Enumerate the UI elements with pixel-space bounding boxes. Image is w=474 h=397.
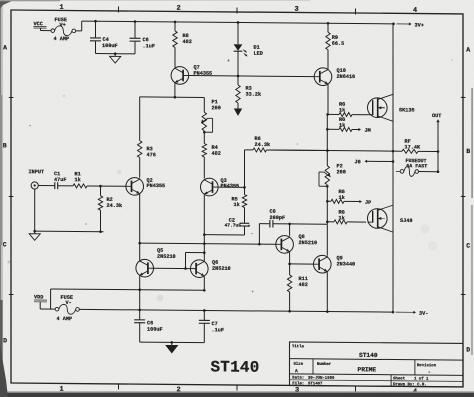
title block PRIME [358, 366, 377, 373]
title block Number [317, 362, 332, 367]
ground bottom filled [166, 342, 178, 353]
resistor R3 33.2k [236, 85, 261, 103]
potentiometer P1 200 [201, 97, 221, 133]
wire output node row [326, 149, 394, 152]
wire C1 to R1 [58, 185, 73, 187]
wire input shield down [34, 189, 36, 231]
node VDD [34, 294, 47, 302]
zone number 1 top [60, 4, 64, 12]
resistor R3 476 [138, 97, 156, 178]
zone letter B right [466, 148, 470, 155]
resistor R2 24.3k [98, 186, 122, 232]
node VCC [34, 21, 47, 28]
title block frame [290, 342, 464, 387]
wire top V+ rail [82, 21, 394, 24]
wire node row to R3 and P1 [140, 96, 205, 99]
resistor R5 1k [232, 187, 247, 208]
scan streak right edge [471, 88, 473, 355]
fuse F1 4 AMP V+ [51, 17, 76, 42]
wire VDD to fuse F2 [40, 302, 55, 309]
wire Q2 emitter down [138, 195, 141, 260]
zone letter D left [3, 337, 7, 344]
transistor Q2 PN4355 [126, 178, 165, 196]
title block File [292, 381, 323, 386]
wire rail to LED D1 [237, 22, 239, 44]
capacitor C6 100uF bottom [134, 310, 162, 342]
transistor Q3 PN4355 [201, 178, 240, 196]
wire bottom cap join [140, 341, 205, 344]
paper grain overlay [0, 0, 1, 1]
wire Q8 collector [289, 224, 291, 236]
resistor RG 1k to JM [326, 117, 371, 134]
terminal OUT [432, 113, 441, 172]
ground top supply [110, 54, 121, 63]
big label ST140 [211, 358, 260, 376]
wire VCC to fuse F1 [41, 28, 52, 31]
wire Q9 emitter to V- rail [326, 273, 328, 312]
zone number 3 bottom [295, 387, 299, 395]
zone letter A right [466, 46, 470, 53]
transistor Q5 2N5210 [136, 248, 176, 278]
fuse F2 4 AMP V- [55, 295, 79, 323]
wire input to C1 [38, 185, 55, 187]
title block Size [294, 362, 304, 374]
resistor R9 66.5 [326, 23, 344, 68]
wire Q9 collector to bias column [326, 224, 328, 256]
LED D1 [234, 44, 263, 56]
scan edge left strip [0, 0, 3, 397]
wire Q10 emitter down bias column [326, 85, 329, 224]
wire Q8 emitter to R11 [288, 253, 291, 275]
wire Q6 collector tie [186, 253, 205, 269]
capacitor C1 47uF [54, 171, 66, 189]
resistor RG 1k to JP [326, 189, 371, 206]
wire Q5 base to Q6 base [154, 267, 191, 270]
node top rail junctions [94, 20, 395, 25]
scan corner top left [0, 0, 310, 9]
wire bottom V- rail [79, 308, 394, 313]
transistor Q8 2N5210 [276, 234, 317, 254]
title block Sheet [393, 376, 429, 381]
resistor RG 1k lower gate [326, 209, 366, 224]
transistor Q10 2N6416 [314, 68, 355, 86]
wire mirror emitter rail [51, 288, 206, 292]
test point J0 [355, 159, 395, 165]
label 3V+ terminal [397, 22, 424, 28]
MOSFET SK135 upper [368, 94, 415, 121]
fuse FUSEOUT 6A FAST [396, 158, 440, 177]
capacitor C4 100uF [90, 21, 118, 54]
arrow terminal below R3 [234, 103, 242, 116]
resistor R1 1k [73, 171, 87, 188]
zone letter A left [3, 44, 7, 51]
wire Q7 base to Q10 base [189, 74, 315, 78]
wire fuse to top rail [76, 21, 82, 31]
wire Q6 emitter [203, 277, 205, 290]
potentiometer P2 200 [319, 163, 346, 188]
resistor R6 24.3k feedback [245, 136, 328, 188]
zone letter C left [3, 241, 7, 248]
scan speckles [8, 59, 453, 301]
transistor Q7 PN4355 [171, 64, 212, 84]
wire Q8 emitter to Q9 base [290, 263, 314, 265]
zone letter D right [466, 346, 470, 353]
scan edge bottom band [0, 391, 474, 397]
label 3V- terminal [396, 311, 429, 317]
scan corner bottom left [0, 345, 8, 397]
capacitor C8 200pF [259, 209, 327, 245]
capacitor C6 .1uF [130, 22, 155, 55]
ground input [29, 230, 40, 241]
wire mirror rail to V- fuse node [50, 289, 52, 309]
MOSFET SJ48 lower [368, 205, 413, 232]
wire Q5 emitter [139, 276, 141, 289]
wire R1 to Q2 base [87, 185, 126, 188]
title block Title label [292, 344, 305, 349]
wire Q6 collector tie dot [203, 251, 206, 254]
zone number 1 bottom [60, 386, 64, 394]
resistor R11 482 [287, 275, 307, 311]
wire Q8 base line [140, 242, 276, 246]
zone number 4 bottom [413, 388, 417, 396]
title block ST140 [359, 352, 378, 359]
title block Date [292, 376, 335, 380]
transistor Q9 2N3440 [314, 255, 356, 273]
zone number 2 top [177, 5, 181, 13]
zone letter C right [466, 242, 470, 249]
connector INPUT [29, 169, 45, 189]
wire Q3 emitter down [203, 195, 206, 260]
transistor Q6 2N5210 [191, 260, 231, 278]
wire Q3 base to feedback node [218, 186, 246, 189]
resistor RF 17.4K [267, 137, 440, 153]
wire Q7 collector to node [174, 84, 177, 99]
zone letter B left [3, 142, 7, 149]
title block Revision [417, 363, 437, 375]
wire cap bottoms join [96, 52, 136, 55]
wire ground bus [35, 230, 104, 233]
wire mirror to V- rail [139, 290, 141, 310]
capacitor C2 47.7uF [204, 207, 250, 235]
zone number 3 top [295, 6, 299, 14]
zone number 2 bottom [177, 386, 181, 394]
resistor RG 1k upper gate [326, 102, 367, 117]
wire LED to R3 [237, 51, 239, 85]
capacitor C7 .1uF [199, 310, 224, 342]
wire output column [392, 24, 394, 312]
resistor R8 482 [173, 22, 192, 67]
zone number 4 top [413, 7, 417, 15]
resistor R4 482 [202, 132, 221, 178]
title block Drawn By [393, 382, 427, 387]
